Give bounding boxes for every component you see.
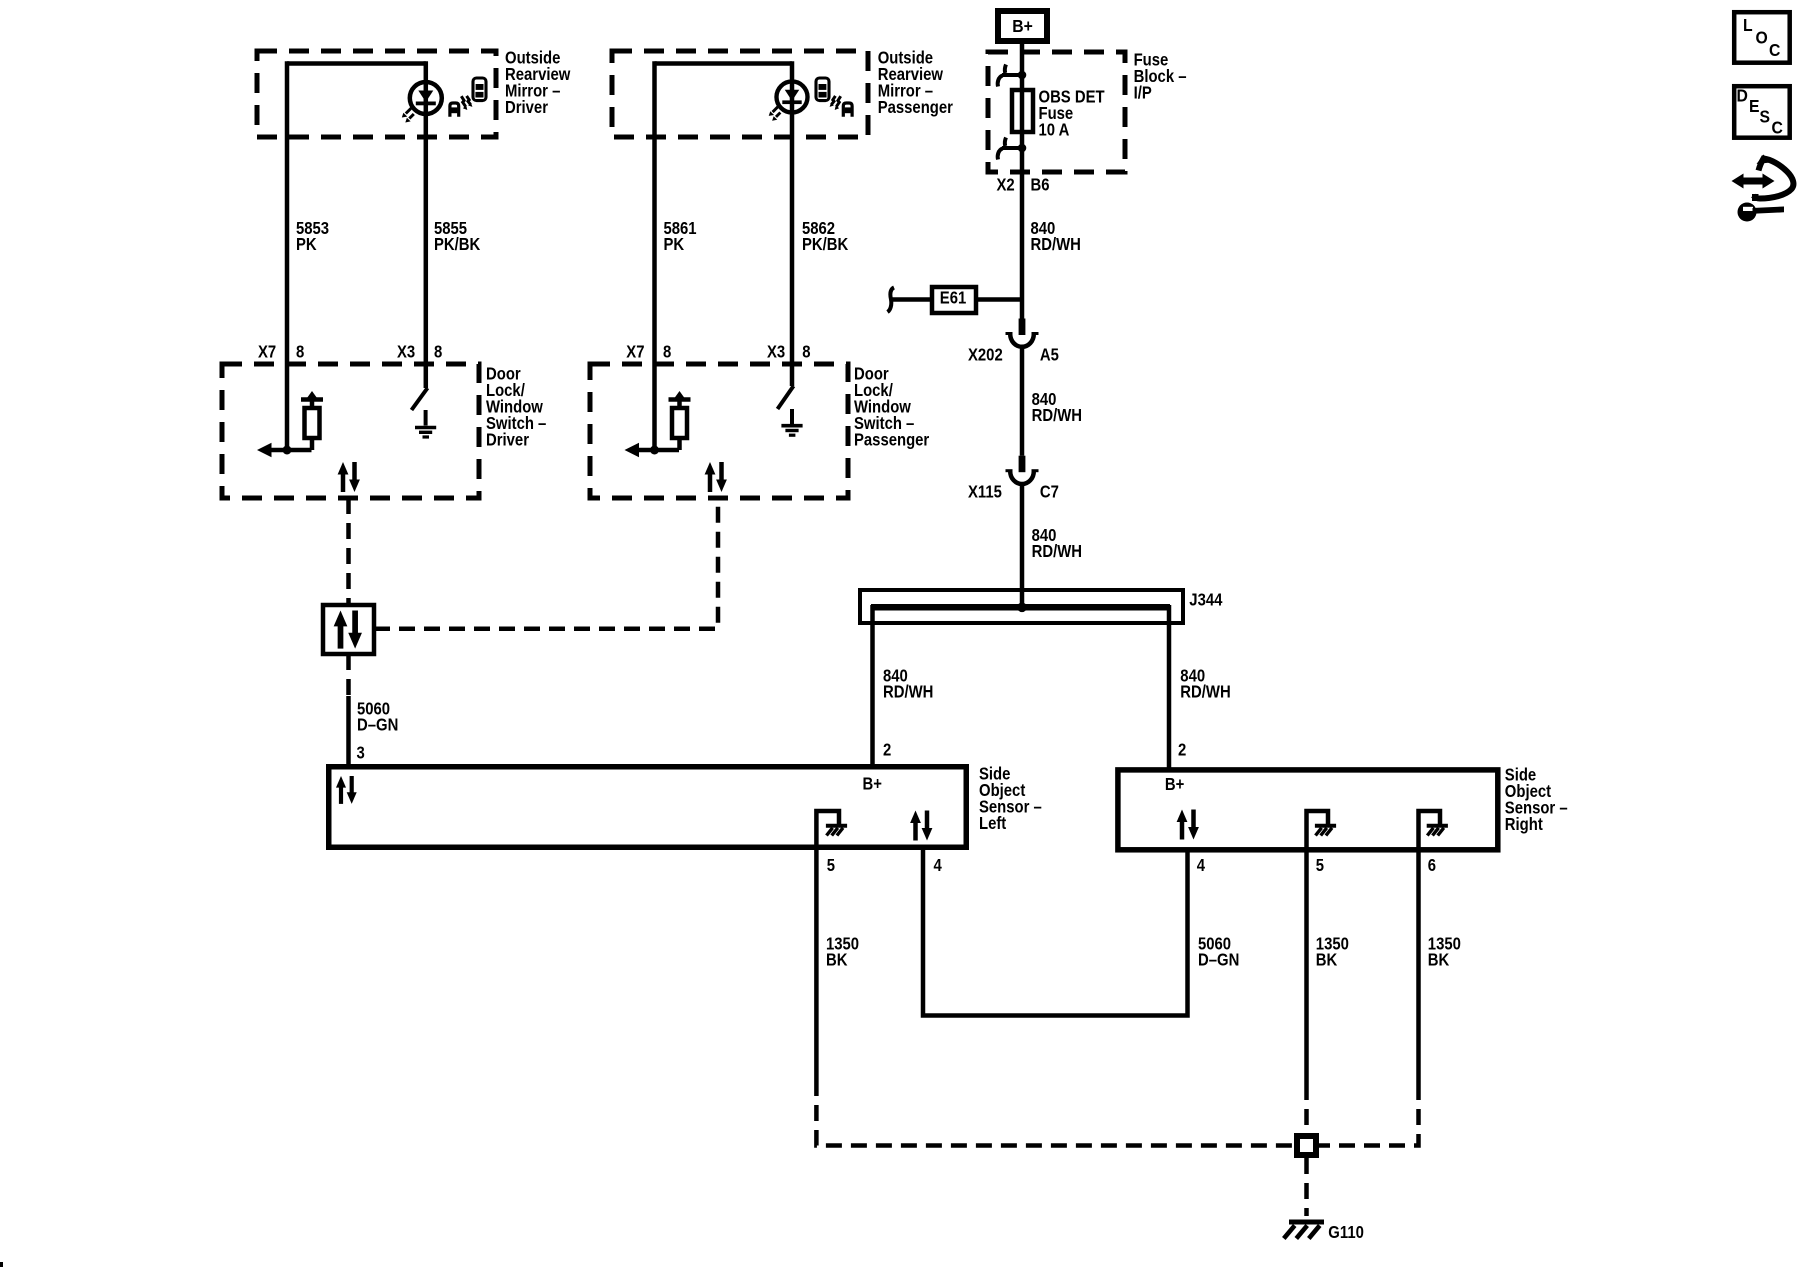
dashed wire right pin5 to splice square	[1304, 1084, 1309, 1133]
svg-text:D: D	[1737, 86, 1748, 106]
svg-text:X115: X115	[968, 483, 1002, 502]
wire J344 right drop 840 RD/WH	[1167, 605, 1172, 769]
side object sensor right box	[1118, 770, 1498, 850]
wire 840 RD/WH (3)	[1020, 484, 1025, 609]
wire 840 RD/WH (2)	[1020, 346, 1025, 456]
wrench icon	[1738, 203, 1757, 222]
ground strap end connector	[888, 288, 895, 313]
ground symbol driver switch	[424, 410, 428, 426]
wire through fuse	[1020, 75, 1025, 148]
svg-text:RD/WH: RD/WH	[883, 682, 933, 701]
svg-text:D–GN: D–GN	[1198, 950, 1239, 969]
fuse block IP dashed box	[988, 52, 1125, 172]
svg-text:2: 2	[1178, 741, 1186, 760]
connector X115 C7	[1006, 456, 1039, 484]
door lock window switch driver dashed box	[222, 364, 479, 498]
svg-text:L: L	[1743, 15, 1753, 35]
arrow left passenger switch	[625, 443, 640, 457]
car radar icon driver	[450, 78, 486, 117]
junction dot J344	[1017, 603, 1027, 613]
svg-text:Driver: Driver	[505, 98, 549, 117]
svg-text:RD/WH: RD/WH	[1032, 542, 1082, 561]
svg-text:X7: X7	[258, 343, 276, 362]
splice pack J344 outer box	[860, 590, 1183, 623]
svg-text:X7: X7	[626, 343, 644, 362]
dashed wire square to ground G110	[1304, 1158, 1309, 1216]
wire 5861 PK vertical	[652, 61, 657, 450]
ground symbol passenger switch	[790, 409, 794, 424]
svg-text:X202: X202	[968, 346, 1003, 365]
side object sensor left box	[329, 767, 967, 848]
wire 5853 PK vertical	[285, 61, 290, 450]
svg-text:B+: B+	[1012, 16, 1033, 36]
svg-text:BK: BK	[1316, 950, 1338, 969]
E61 box	[932, 287, 976, 313]
svg-text:BK: BK	[1428, 950, 1450, 969]
fuse terminal bottom	[998, 138, 1027, 160]
fuse terminal top	[998, 65, 1027, 87]
svg-text:E: E	[1749, 96, 1759, 116]
svg-text:5: 5	[827, 856, 835, 875]
svg-text:B+: B+	[1165, 775, 1184, 794]
resistor passenger switch	[672, 408, 687, 438]
nav curved arrow	[1754, 159, 1794, 199]
svg-text:PK: PK	[664, 235, 685, 254]
svg-text:J344: J344	[1189, 591, 1222, 610]
wire 1350 BK right pin5	[1304, 850, 1309, 1084]
wire 5060 D-GN pin4 link	[923, 848, 1188, 1016]
internal ground right sensor pin6	[1419, 811, 1441, 850]
svg-text:G110: G110	[1328, 1223, 1364, 1242]
svg-text:5: 5	[1316, 856, 1324, 875]
wire B+ to fuse block	[1020, 41, 1025, 75]
svg-text:E61: E61	[940, 288, 966, 307]
outside rearview mirror passenger dashed box	[612, 51, 868, 137]
svg-text:Right: Right	[1505, 815, 1544, 834]
svg-text:Passenger: Passenger	[854, 430, 930, 449]
svg-text:RD/WH: RD/WH	[1032, 406, 1082, 425]
OBS DET fuse 10A	[1012, 90, 1033, 132]
dashed comm wire driver down	[346, 498, 351, 605]
svg-text:8: 8	[802, 343, 810, 362]
DESC nav box	[1734, 86, 1790, 138]
switch blade passenger	[778, 386, 794, 409]
svg-text:10 A: 10 A	[1039, 120, 1070, 139]
switch blade driver	[412, 388, 428, 410]
svg-text:A5: A5	[1040, 346, 1059, 365]
svg-text:I/P: I/P	[1134, 83, 1152, 102]
dashed wire right pin6 to splice square	[1319, 1084, 1419, 1146]
double arrow driver switch	[338, 462, 360, 492]
svg-text:RD/WH: RD/WH	[1031, 235, 1081, 254]
svg-text:X3: X3	[767, 343, 785, 362]
svg-text:Driver: Driver	[486, 430, 530, 449]
svg-text:4: 4	[1197, 856, 1205, 875]
outside rearview mirror driver dashed box	[257, 51, 496, 137]
connector X202 A5	[1006, 319, 1039, 347]
door lock window switch passenger dashed box	[590, 364, 848, 498]
wire 1350 BK left pin5	[814, 848, 819, 1080]
svg-text:PK/BK: PK/BK	[434, 235, 481, 254]
LOC nav box	[1734, 12, 1790, 63]
svg-text:6: 6	[1428, 856, 1436, 875]
svg-text:Left: Left	[979, 814, 1007, 833]
internal ground left sensor pin5	[816, 811, 839, 848]
chassis ground G110	[1289, 1220, 1324, 1225]
svg-text:O: O	[1756, 28, 1768, 48]
wire J344 left drop 840 RD/WH	[870, 605, 875, 766]
comm arrow box	[323, 605, 374, 654]
junction dot passenger switch	[650, 446, 659, 455]
double arrow left sensor pin4	[910, 811, 932, 841]
svg-text:B+: B+	[863, 775, 882, 794]
LED mirror driver	[402, 82, 442, 123]
dashed wire left pin5 to splice square	[816, 1080, 1294, 1146]
car radar icon passenger	[816, 78, 852, 117]
svg-text:PK/BK: PK/BK	[802, 235, 849, 254]
svg-text:Passenger: Passenger	[878, 98, 954, 117]
internal ground right sensor pin5	[1307, 811, 1329, 850]
resistor driver switch	[305, 408, 320, 438]
svg-text:PK: PK	[296, 235, 317, 254]
arrow left driver switch	[257, 443, 272, 457]
dashed comm wire below arrow box	[346, 654, 351, 698]
wire 840 RD/WH (1)	[1020, 148, 1025, 319]
svg-text:3: 3	[357, 744, 365, 763]
splice square connector	[1297, 1136, 1316, 1155]
svg-text:B6: B6	[1031, 176, 1050, 195]
svg-text:C7: C7	[1040, 483, 1059, 502]
svg-text:S: S	[1760, 107, 1770, 127]
svg-text:C: C	[1772, 118, 1783, 138]
double arrow right sensor pin4	[1177, 810, 1199, 840]
B+ power box	[998, 11, 1047, 41]
svg-text:4: 4	[934, 856, 942, 875]
svg-text:X3: X3	[397, 343, 415, 362]
wire mirror passenger top horizontal	[655, 61, 793, 66]
svg-text:8: 8	[434, 343, 442, 362]
svg-text:X2: X2	[997, 176, 1015, 195]
wire to E61	[891, 297, 932, 302]
wire mirror driver top horizontal	[287, 61, 426, 66]
svg-text:RD/WH: RD/WH	[1180, 682, 1230, 701]
svg-text:C: C	[1769, 40, 1780, 60]
wire 1350 BK right pin6	[1416, 850, 1421, 1084]
junction dot driver switch	[283, 446, 292, 455]
double arrow passenger switch	[705, 462, 727, 492]
svg-text:BK: BK	[826, 950, 848, 969]
svg-text:D–GN: D–GN	[357, 715, 398, 734]
LED mirror passenger	[769, 81, 808, 120]
wire E61 to main	[976, 297, 1022, 302]
nav double arrow	[1741, 178, 1765, 185]
wire 5855 PK/BK vertical	[424, 61, 429, 388]
double arrow left sensor pin3	[336, 776, 357, 804]
page mark bottom left	[0, 1262, 3, 1267]
wire 5060 D-GN to pin 3	[346, 696, 351, 766]
svg-text:8: 8	[663, 343, 671, 362]
svg-text:8: 8	[296, 343, 304, 362]
dashed comm wire passenger to arrow box	[374, 498, 718, 629]
wire 5862 PK/BK vertical	[790, 61, 795, 386]
svg-text:2: 2	[883, 741, 891, 760]
splice bus bar	[871, 604, 1170, 611]
